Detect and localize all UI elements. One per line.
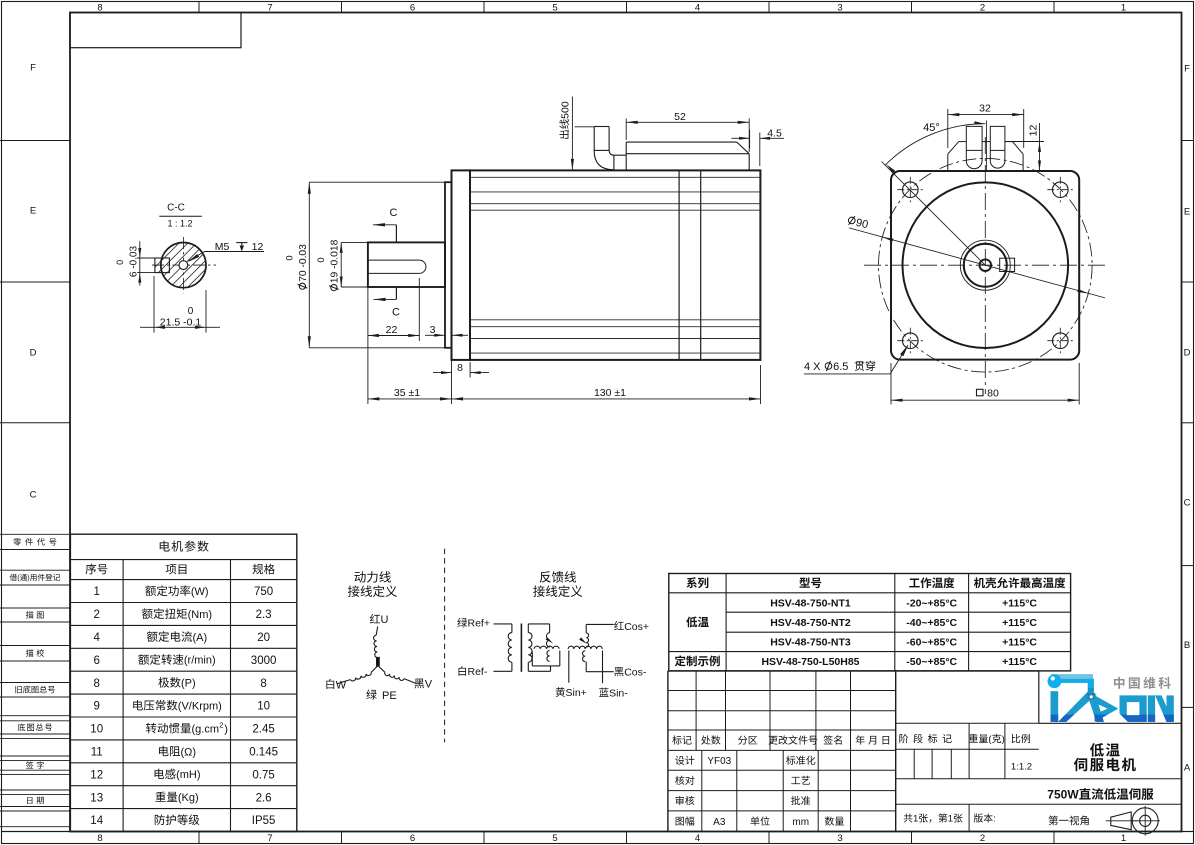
dim square-80 [890,363,892,405]
side view: housing rib lines [470,176,760,178]
side view: top connector block [626,141,737,143]
dim 4.5 [731,137,749,139]
svg-text:8: 8 [457,362,463,374]
svg-text:750W: 750W [1047,788,1079,802]
front connector housing [959,141,967,143]
svg-text:6: 6 [93,655,99,667]
svg-text:(W): (W) [191,586,209,598]
svg-text:2.3: 2.3 [256,609,272,621]
svg-text:7: 7 [267,833,272,844]
dim 3 [425,334,445,336]
45 deg construction line [882,162,986,266]
inner bottom line extensions across margins [2,831,71,833]
svg-text:C: C [390,207,398,219]
svg-text:(Nm): (Nm) [188,609,212,621]
svg-text:F: F [30,62,36,73]
svg-text:+115°C: +115°C [1002,597,1037,609]
dim 21.5 -0.1 [153,276,155,333]
svg-text:1: 1 [1121,833,1126,844]
svg-text:YF03: YF03 [707,756,731,767]
dim 12 [1005,141,1044,143]
front view: phi70 pilot circle [903,182,1069,348]
svg-text:3000: 3000 [251,655,277,667]
svg-text:D: D [1184,347,1191,358]
svg-text:PE: PE [382,690,397,702]
svg-text:8: 8 [97,833,102,844]
svg-text:+115°C: +115°C [1002,617,1037,629]
svg-text:6: 6 [410,2,415,13]
svg-text:2: 2 [980,833,985,844]
middle column: stage mark / weight / scale [896,722,1039,724]
rotor box [531,651,533,666]
dim 22 [418,278,420,341]
svg-text:C: C [392,307,400,319]
svg-text:21.5 -0.1: 21.5 -0.1 [160,316,202,328]
svg-text:19 -0.018: 19 -0.018 [330,239,341,283]
svg-text:HSV-48-750-L50H85: HSV-48-750-L50H85 [761,656,859,668]
svg-text:Cos+: Cos+ [624,621,649,633]
resolver: secondary loop wiring [528,623,549,625]
svg-text:1 : 1.2: 1 : 1.2 [167,219,192,229]
svg-text:B: B [1184,640,1190,651]
svg-text:500: 500 [559,101,571,119]
svg-text:(P): (P) [181,678,196,690]
resolver: Cos- lead [614,667,623,676]
svg-text:70 -0.03: 70 -0.03 [298,244,309,282]
svg-text:V: V [425,679,433,691]
product name [1090,743,1104,757]
front view: shaft key [1000,258,1015,271]
revision area columns lower [701,750,703,831]
svg-text:4 X: 4 X [804,361,821,373]
svg-text::: : [993,814,996,825]
svg-text:10: 10 [90,724,103,736]
resolver: Ref- lead [459,666,466,676]
sin/cos coil A [586,633,588,647]
svg-text:): ) [224,723,228,735]
zone dividers top/bottom strips [198,2,200,13]
svg-text:0.145: 0.145 [249,747,278,759]
svg-text:8: 8 [93,678,99,690]
svg-text:(r/min): (r/min) [184,655,216,667]
svg-text:22: 22 [386,324,398,336]
Sin+ lead [568,651,570,683]
svg-text:D: D [30,347,37,358]
resolver: Cos+ lead [614,621,624,630]
resolver: Ref+ lead [457,618,467,628]
svg-text:-60~+85°C: -60~+85°C [906,637,957,649]
svg-text:4: 4 [93,632,100,644]
svg-text:2: 2 [219,720,223,729]
feedback wiring diagram title [540,571,551,582]
svg-text:(: ( [17,573,20,582]
phi90 leader line [849,228,1105,298]
svg-text:45°: 45° [923,122,940,134]
sin/cos horizontal rotor coil [568,646,602,649]
svg-text:3: 3 [837,833,842,844]
dim phi70 [309,181,445,183]
svg-text:35 ±1: 35 ±1 [394,387,420,399]
svg-text:20: 20 [257,632,270,644]
dim 8 [451,360,453,404]
side view: pilot boss [445,182,452,348]
svg-text:1: 1 [93,586,99,598]
svg-text:80: 80 [987,388,999,400]
M5 leader [205,251,264,253]
svg-text:3: 3 [430,324,436,336]
svg-text:(Ω): (Ω) [181,746,197,758]
side view: keyway [368,259,419,261]
sin/cos coil B [583,651,586,662]
svg-text:3: 3 [837,2,842,13]
svg-text:1:1.2: 1:1.2 [1011,761,1032,772]
svg-text:Cos-: Cos- [624,667,647,679]
svg-text:HSV-48-750-NT3: HSV-48-750-NT3 [770,637,851,649]
left margin labels [13,538,21,545]
star connection: V phase [414,679,424,689]
svg-text:(A): (A) [193,632,208,644]
svg-text:90: 90 [855,217,870,232]
svg-text:): ) [1002,734,1005,745]
svg-text:6.5: 6.5 [833,361,848,373]
svg-text:13: 13 [90,792,103,804]
svg-text:(mH): (mH) [176,769,200,781]
svg-text:(g.cm: (g.cm [192,723,220,735]
svg-text:11: 11 [91,747,103,759]
svg-text:(Kg): (Kg) [178,792,199,804]
svg-text:9: 9 [93,701,99,713]
front view: centerlines [984,137,986,394]
svg-text:52: 52 [674,111,686,123]
svg-text:2: 2 [93,609,99,621]
svg-text:U: U [381,614,389,626]
Sin- lead [602,651,604,684]
svg-text:-40~+85°C: -40~+85°C [906,617,957,629]
svg-text:1: 1 [948,814,953,825]
svg-text:12: 12 [90,769,103,781]
svg-text:-50~+85°C: -50~+85°C [906,656,957,668]
star connection: U phase [370,614,380,624]
svg-text:2.45: 2.45 [252,724,274,736]
section C-C cutting marks [395,225,397,243]
svg-text:HSV-48-750-NT2: HSV-48-750-NT2 [770,617,851,629]
svg-text:5: 5 [552,833,557,844]
svg-text:mm: mm [792,817,809,828]
star connection: W phase [326,679,334,689]
svg-text:IP55: IP55 [252,815,276,827]
svg-text:6 -0.03: 6 -0.03 [129,245,140,277]
svg-text:750: 750 [254,586,273,598]
dim 130 +-1 [760,365,762,404]
svg-text:12: 12 [1027,125,1039,137]
rotor vertical coil [547,651,550,662]
dim phi19 [341,241,368,243]
svg-text:+115°C: +115°C [1002,637,1037,649]
svg-text:0.75: 0.75 [252,769,274,781]
center line between pins [986,121,988,172]
dim 6 -0.03 [137,257,155,259]
first angle projection symbol [1111,812,1131,830]
svg-text:10: 10 [257,701,270,713]
svg-text:M5: M5 [215,241,230,253]
svg-text:1: 1 [1121,2,1126,13]
front view: square flange [891,171,1079,360]
power-line wiring diagram title [354,571,365,582]
side view: cable elbow [594,126,609,128]
front connector pins (pills) [966,126,982,168]
front view: 4 corner mounting holes [903,182,919,198]
svg-text:2.6: 2.6 [256,792,272,804]
svg-text:+115°C: +115°C [1002,656,1037,668]
svg-text:0: 0 [316,257,327,262]
svg-text:A: A [1184,762,1191,773]
front view: phi90 bolt circle (dash-dot) [879,158,1093,372]
dim 52 [626,121,749,123]
zone row dividers right margin [1182,140,1194,142]
svg-text:E: E [1184,206,1190,217]
svg-text:(V/Krpm): (V/Krpm) [178,701,222,713]
svg-text:C: C [30,489,37,500]
C-C centerlines [182,237,184,293]
svg-text:6: 6 [410,833,415,844]
front view: shaft circles [980,259,992,271]
svg-text:(: ( [988,734,992,745]
resolver: primary coil [508,633,512,663]
zone row dividers left margin [0,140,70,142]
svg-text:-20~+85°C: -20~+85°C [906,597,957,609]
svg-text:Ref+: Ref+ [468,618,490,630]
top-left reference box [70,13,241,48]
svg-text:2: 2 [980,2,985,13]
revision area columns upper [695,671,697,751]
revision area rows [668,690,896,692]
svg-text:12: 12 [252,241,264,253]
left margin label boxes [0,533,70,535]
logo box [1038,671,1040,723]
svg-text:C: C [1184,497,1191,508]
svg-text:): ) [27,573,29,582]
svg-text:4: 4 [695,833,700,844]
45 deg arc dimension [885,124,985,165]
svg-text:8: 8 [260,678,266,690]
side view: front flange [452,170,471,360]
svg-text:HSV-48-750-NT1: HSV-48-750-NT1 [770,597,851,609]
C-C M5 hole [179,261,188,270]
dashed separators [444,549,446,743]
motor parameter table [70,534,296,831]
svg-text:A3: A3 [713,817,726,828]
svg-text:0: 0 [285,255,296,260]
dim 出线500 [559,101,571,139]
svg-text:32: 32 [979,102,991,114]
svg-text:0: 0 [115,260,125,265]
svg-text:5: 5 [552,2,557,13]
svg-text:F: F [1184,63,1190,74]
svg-text:1: 1 [913,814,918,825]
resolver: secondary coil [527,624,529,633]
svg-text:Sin-: Sin- [609,688,628,700]
C-C keyway rect [155,258,170,273]
svg-text:E: E [30,205,36,216]
svg-text:130 ±1: 130 ±1 [594,387,626,399]
title block outline [667,671,669,832]
side view: rear cover joint lines [678,170,680,360]
svg-text:8: 8 [97,2,102,13]
side view: shaft [368,242,445,287]
resolver: core bar [520,624,522,672]
svg-text:4.5: 4.5 [767,128,782,140]
resolver: rotor coil horizontal [534,646,559,649]
svg-text:C-C: C-C [167,203,185,214]
dim 32 [947,109,949,148]
star point + PE label [377,657,380,666]
svg-text:7: 7 [267,2,272,13]
dim 35 +-1 [368,398,452,400]
svg-text:14: 14 [90,815,103,827]
svg-text:Ref-: Ref- [468,666,488,678]
svg-text:Sin+: Sin+ [566,687,587,699]
model/series table [669,574,1071,671]
svg-text:4: 4 [695,2,700,13]
side view: motor body outline [470,170,760,360]
